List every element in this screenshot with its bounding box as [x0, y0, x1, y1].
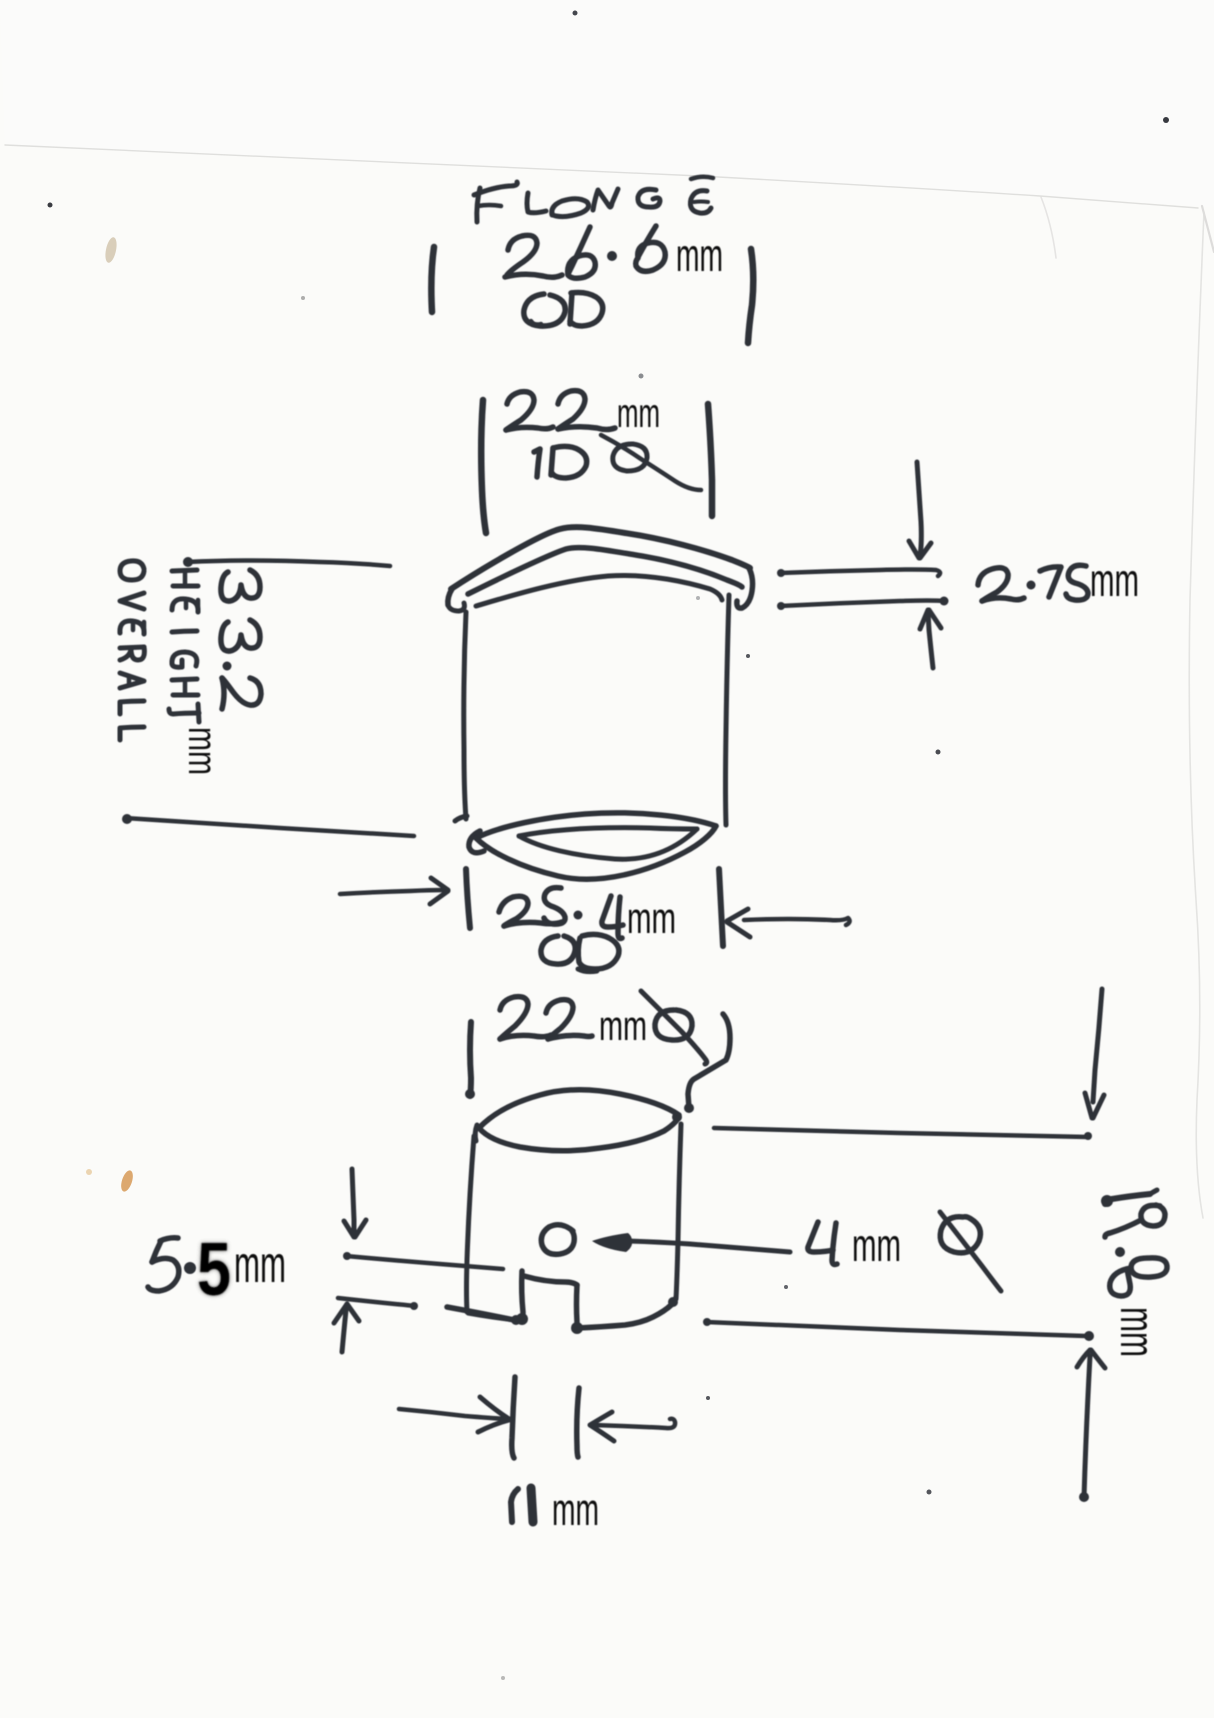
second 1 of 11 (bold): [531, 1488, 533, 1522]
digit 4 of 25.4: [602, 896, 623, 927]
paper crease corner top right: [1041, 197, 1056, 258]
dim 5.5 upper line: [346, 1256, 503, 1269]
dim 25.4 right arrow: [727, 909, 748, 921]
letters ID - D: [551, 448, 553, 475]
lower cylinder bottom edge right: [578, 1305, 671, 1328]
speck bottom right: [927, 1490, 932, 1495]
speck bottom center: [706, 1396, 710, 1400]
svg-text:mm: mm: [234, 1236, 286, 1294]
flange thickness up arrow: [928, 612, 933, 668]
notch right wall: [576, 1285, 577, 1330]
speck top left: [48, 203, 53, 208]
digit 5 of 25.4: [544, 888, 565, 925]
dim 19.8 bottom line: [706, 1322, 1086, 1336]
dim 22 ID tick left: [481, 400, 486, 533]
letters ID - I: [534, 449, 540, 477]
bottom rim inner lens: [519, 828, 697, 836]
label mm after 22 lower: [599, 1002, 647, 1049]
word OD under 28.8 - D: [570, 293, 572, 324]
height dim top line: [187, 561, 390, 567]
flange right end: [737, 568, 753, 608]
typed bold 5 of 5.5: [197, 1227, 231, 1311]
label mm after 11: [552, 1484, 599, 1535]
arrow pointing to hole: [628, 1241, 790, 1252]
speck below circle: [784, 1285, 788, 1289]
dim 11 left arrow: [590, 1412, 614, 1441]
first 2 of 22 ID: [506, 392, 534, 430]
diameter symbol 4mm - circle: [940, 1217, 980, 1253]
word FLANGE - G: [638, 189, 660, 207]
dim 22 ID tick right: [708, 404, 712, 516]
svg-text:mm: mm: [1110, 1307, 1163, 1357]
first 1 of 11: [511, 1489, 518, 1522]
svg-text:mm: mm: [1090, 554, 1139, 606]
dim 11 tick left: [512, 1377, 515, 1458]
svg-text:mm: mm: [180, 727, 224, 775]
dim 25.4 tick left: [466, 869, 470, 928]
faint speck bottom: [501, 1676, 505, 1680]
svg-text:mm: mm: [676, 229, 723, 281]
word OD under 25.4 - O: [541, 936, 575, 964]
rotated 8 of 19.8: [1131, 1258, 1167, 1277]
lower cylinder left end tick: [475, 1125, 477, 1141]
paper fold crease line top: [5, 145, 1198, 208]
word OD under 28.8 - O: [524, 294, 565, 326]
paper edge shadow top right corner: [1202, 206, 1214, 252]
label mm after 4: [852, 1219, 901, 1271]
cylinder body left side: [464, 612, 466, 819]
cylinder body right side: [726, 595, 730, 825]
digit 2 of 2.75: [978, 568, 1008, 601]
faint speck left: [301, 296, 305, 300]
beige fleck upper left: [103, 236, 118, 264]
word FLANGE - F: [474, 182, 517, 195]
label mm after 2.75: [1090, 554, 1139, 606]
second 2 of 22 ID: [558, 391, 585, 429]
lower cylinder top ellipse upper arc: [479, 1090, 679, 1128]
label mm after 22 ID: [617, 390, 660, 436]
digit 7 of 2.75: [1040, 567, 1061, 597]
dim 22 lower tick right hook: [688, 1014, 730, 1108]
bottom rim outer lens: [476, 813, 716, 838]
digit 4 of 4mm: [808, 1222, 833, 1252]
word FLANGE - E: [690, 191, 711, 213]
second 2 of 22 lower: [546, 1000, 573, 1039]
grey dot near flange: [639, 374, 644, 379]
digit 2 of 25.4: [499, 896, 528, 926]
word OD under 25.4 - D: [578, 934, 619, 969]
rotated label mm after 19.8: [1110, 1307, 1163, 1357]
orange fleck left edge: [119, 1169, 135, 1193]
dim 28.8 tick left: [431, 247, 434, 312]
second 8 (b-shape) of 28.8: [638, 226, 656, 257]
digit 2 of 28.8: [507, 235, 537, 275]
flange thickness down arrow: [917, 462, 921, 556]
lower cylinder top ellipse lower arc: [479, 1117, 679, 1151]
speck right upper: [1163, 117, 1169, 123]
dim 11 tick right: [577, 1388, 579, 1457]
lower cylinder left side: [467, 1136, 475, 1312]
faint mark in flange: [696, 596, 700, 600]
rotated text 33.2: [221, 570, 261, 709]
handwritten 5 of 5.5: [160, 1238, 178, 1241]
flange thickness upper line: [780, 570, 940, 577]
svg-text:5: 5: [197, 1227, 231, 1311]
flange top outer edge: [451, 527, 750, 589]
hole circle on cylinder: [541, 1225, 574, 1255]
dim 22 lower tick left: [470, 1022, 471, 1096]
digit 5 of 2.75: [1066, 565, 1088, 600]
word FLANGE - L: [527, 193, 546, 213]
svg-text:mm: mm: [552, 1484, 599, 1535]
label mm after 25.4: [627, 894, 676, 943]
rotated text HEIGHT: [169, 570, 199, 722]
dim 28.8 tick right: [748, 249, 753, 343]
diameter symbol lower - slash: [641, 991, 707, 1064]
notch top edge: [524, 1276, 577, 1285]
body bottom left dash: [455, 816, 467, 821]
flange front bottom curve: [476, 575, 722, 606]
paper crease right edge: [1189, 212, 1204, 1218]
lower cylinder bottom right corner: [668, 1297, 676, 1308]
notch left wall: [522, 1271, 523, 1322]
pale fleck left edge: [86, 1169, 92, 1175]
dim 5.5 lower line: [338, 1298, 415, 1306]
flange left end: [448, 589, 452, 605]
word FLANGE - A: [552, 199, 589, 217]
paper top area above fold: [0, 0, 1214, 207]
dim 25.4 left arrow: [340, 890, 445, 894]
rotated decimal of 19.8: [1115, 1247, 1125, 1257]
svg-text:mm: mm: [852, 1219, 901, 1271]
height dim bottom line: [125, 818, 414, 836]
dim 19.8 top line: [714, 1128, 1088, 1137]
label mm after 5.5: [234, 1236, 286, 1294]
decimal point of 5.5: [184, 1262, 196, 1274]
first 2 of 22 lower: [500, 997, 528, 1039]
lower cylinder bottom edge left: [447, 1307, 519, 1321]
diameter symbol 4mm - slash: [940, 1212, 1001, 1291]
svg-text:mm: mm: [599, 1002, 647, 1049]
decimal point of 2.75: [1027, 581, 1036, 590]
diameter symbol ID - circle: [613, 444, 647, 471]
rotated 1 of 19.8: [1105, 1194, 1150, 1204]
dim 19.8 down arrow: [1093, 989, 1102, 1102]
speck mid body: [746, 654, 750, 658]
svg-text:mm: mm: [627, 894, 676, 943]
lower cylinder right side: [676, 1124, 681, 1299]
rotated text OVERALL: [120, 561, 144, 740]
speck top center: [573, 11, 578, 16]
svg-text:mm: mm: [617, 390, 660, 436]
rotated 9 of 19.8: [1141, 1205, 1165, 1226]
dim 19.8 up arrow: [1084, 1356, 1090, 1498]
decimal point of 28.8: [607, 251, 617, 261]
decimal point of 25.4: [574, 911, 583, 920]
body bottom left hook: [469, 831, 484, 853]
flange top second line: [468, 548, 742, 594]
rotated label mm after 33.2: [180, 727, 224, 775]
word FLANGE - N: [593, 189, 618, 210]
diameter symbol lower - circle: [655, 1010, 692, 1040]
label mm after 28.8: [676, 229, 723, 281]
dim 11 right arrow: [399, 1409, 506, 1419]
speck mid right: [936, 750, 941, 755]
diameter symbol ID - slash: [601, 435, 701, 490]
dim 5.5 up arrow: [342, 1310, 346, 1352]
digit 8 (b-shape) of 28.8: [568, 227, 590, 274]
dim 5.5 down arrow: [352, 1169, 354, 1233]
dim 25.4 tick right: [719, 869, 723, 946]
flange thickness lower line: [780, 601, 944, 607]
